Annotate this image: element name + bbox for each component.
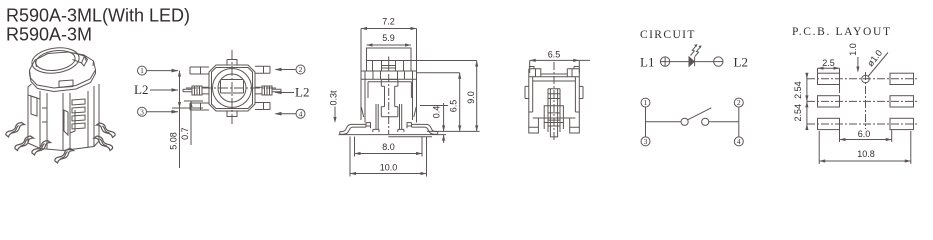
- svg-text:10.0: 10.0: [380, 163, 398, 173]
- svg-text:ø1.0: ø1.0: [865, 48, 884, 68]
- svg-text:2: 2: [737, 98, 741, 107]
- svg-text:1.0: 1.0: [848, 43, 858, 56]
- svg-text:5.9: 5.9: [382, 33, 395, 43]
- svg-text:6.5: 6.5: [548, 50, 561, 60]
- svg-text:P.C.B. LAYOUT: P.C.B. LAYOUT: [792, 26, 892, 38]
- svg-text:CIRCUIT: CIRCUIT: [640, 29, 696, 41]
- svg-text:L2: L2: [134, 82, 148, 97]
- svg-text:2.54: 2.54: [793, 104, 803, 122]
- svg-text:L2: L2: [734, 54, 748, 69]
- svg-text:L2: L2: [295, 84, 309, 99]
- svg-text:3: 3: [140, 107, 144, 116]
- svg-text:3: 3: [644, 137, 648, 146]
- svg-text:R590A-3M: R590A-3M: [6, 25, 92, 45]
- svg-text:1: 1: [644, 98, 648, 107]
- svg-text:4: 4: [299, 109, 303, 118]
- svg-text:5.08: 5.08: [168, 132, 178, 150]
- svg-text:6.0: 6.0: [858, 129, 871, 139]
- svg-text:0.3t: 0.3t: [329, 90, 339, 106]
- svg-text:0.4: 0.4: [432, 106, 442, 119]
- svg-text:1: 1: [140, 66, 144, 75]
- svg-text:9.0: 9.0: [466, 91, 476, 104]
- svg-text:10.8: 10.8: [857, 149, 875, 159]
- svg-text:4: 4: [737, 137, 741, 146]
- svg-text:R590A-3ML(With LED): R590A-3ML(With LED): [6, 6, 190, 26]
- svg-text:6.5: 6.5: [449, 100, 459, 113]
- svg-text:2: 2: [299, 65, 303, 74]
- svg-text:L1: L1: [640, 54, 654, 69]
- svg-text:7.2: 7.2: [382, 17, 395, 27]
- svg-text:0.7: 0.7: [180, 127, 190, 140]
- svg-text:2.54: 2.54: [793, 81, 803, 99]
- svg-text:2.5: 2.5: [822, 58, 835, 68]
- svg-text:8.0: 8.0: [382, 142, 395, 152]
